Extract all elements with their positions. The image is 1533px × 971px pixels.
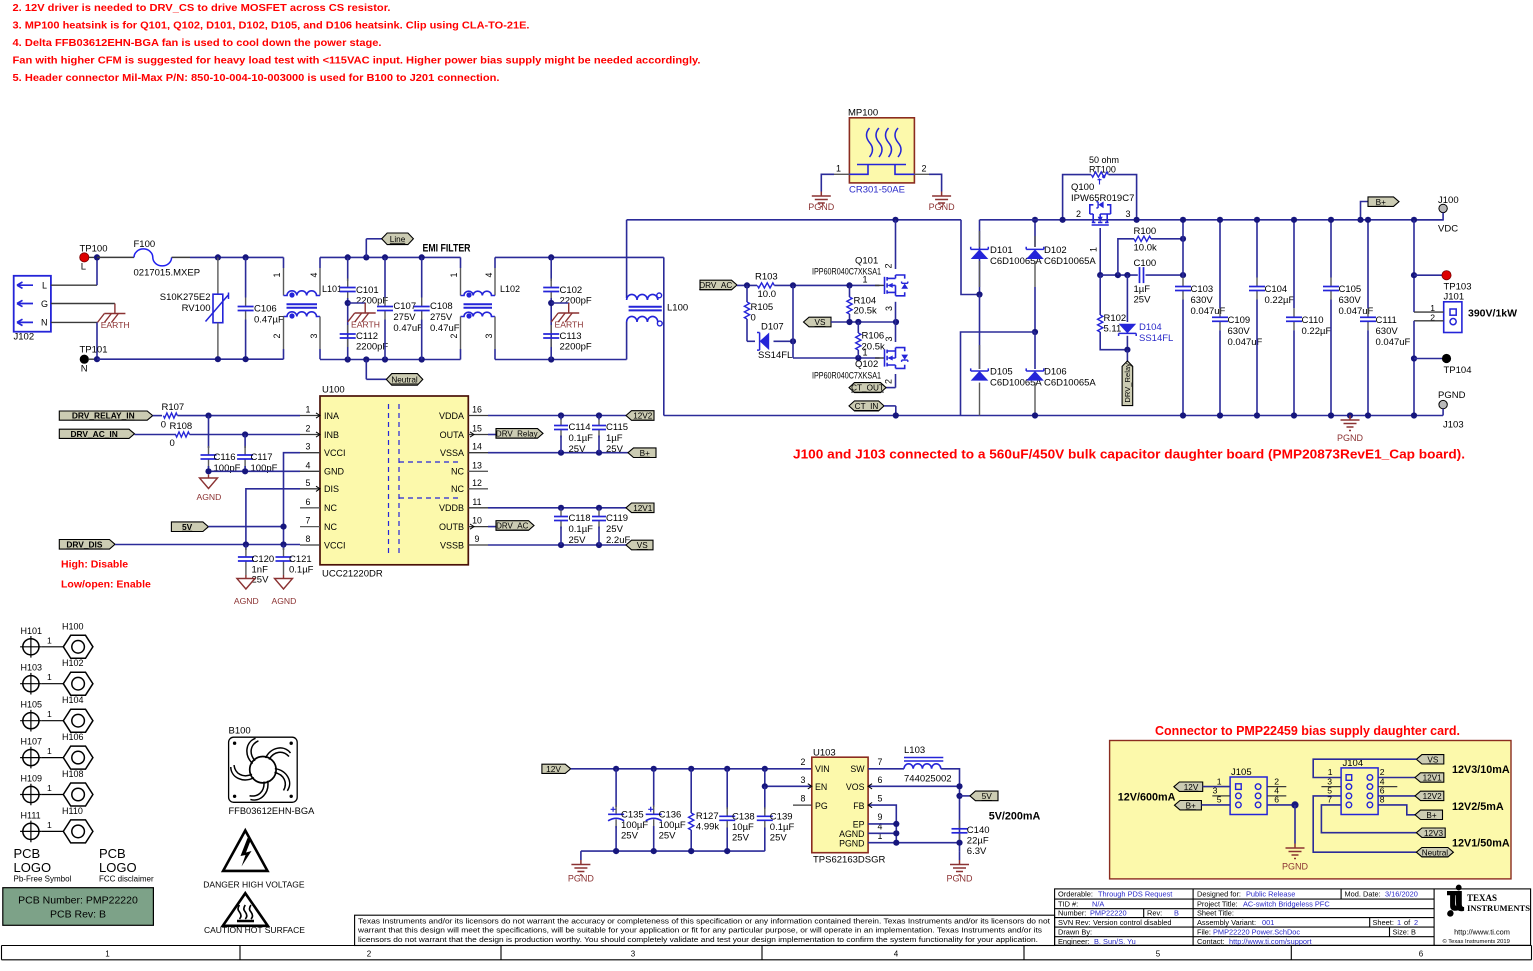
flag 12V (J105) — [1174, 782, 1203, 791]
svg-text:INB: INB — [324, 430, 339, 440]
inductor L100 — [626, 220, 628, 298]
svg-text:6.3V: 6.3V — [967, 846, 987, 857]
svg-text:2: 2 — [367, 950, 372, 959]
svg-text:C140: C140 — [967, 825, 990, 836]
power ground PGND (U103 input) — [580, 851, 582, 860]
svg-text:AGND: AGND — [234, 596, 259, 606]
power ground PGND (U103 output) — [959, 851, 961, 860]
svg-text:H105: H105 — [21, 700, 43, 710]
svg-text:25V: 25V — [659, 831, 677, 842]
svg-text:8: 8 — [1380, 795, 1385, 805]
svg-text:630V: 630V — [1191, 295, 1214, 306]
svg-text:RV100: RV100 — [182, 303, 211, 314]
bottom power rail — [664, 415, 1443, 417]
wire MP100 pin1 to PGND — [834, 173, 849, 175]
svg-text:Designed for:: Designed for: — [1197, 890, 1241, 899]
svg-text:C115: C115 — [606, 422, 628, 433]
svg-text:C113: C113 — [560, 331, 582, 342]
svg-text:5: 5 — [306, 478, 311, 488]
svg-text:© Texas Instruments 2019: © Texas Instruments 2019 — [1443, 938, 1510, 945]
svg-text:B+: B+ — [1426, 811, 1436, 820]
wire VS to J104 pin1 — [1313, 759, 1416, 777]
svg-text:FCC disclaimer: FCC disclaimer — [99, 875, 154, 884]
junction bridge mid2 — [1032, 329, 1038, 335]
svg-text:12V1: 12V1 — [633, 504, 653, 513]
svg-text:0.1µF: 0.1µF — [770, 822, 795, 833]
svg-text:15: 15 — [472, 424, 482, 434]
top rail L101 to L102 — [320, 256, 461, 258]
svg-text:NC: NC — [451, 467, 464, 477]
U100 pin 6 NC — [300, 507, 320, 509]
capacitor C104 — [1256, 220, 1258, 278]
svg-text:R102: R102 — [1104, 313, 1127, 324]
svg-text:C104: C104 — [1265, 284, 1288, 295]
svg-text:G: G — [41, 299, 48, 309]
svg-text:5V/200mA: 5V/200mA — [989, 811, 1041, 823]
svg-text:2: 2 — [1414, 918, 1418, 927]
svg-text:D101: D101 — [990, 245, 1013, 256]
U100 pin 2 INB — [300, 434, 320, 436]
svg-text:PMP22220: PMP22220 — [1090, 908, 1127, 917]
wire DRV_AC to R103 — [737, 284, 757, 286]
svg-text:L103: L103 — [904, 745, 925, 756]
svg-text:Q102: Q102 — [855, 359, 878, 370]
svg-text:SS14FL: SS14FL — [1139, 333, 1173, 344]
svg-text:R100: R100 — [1134, 226, 1157, 237]
svg-text:R103: R103 — [755, 272, 778, 283]
power ground PGND (J105) — [1286, 844, 1305, 859]
svg-text:14: 14 — [472, 442, 482, 452]
power ground PGND (rail) — [1347, 412, 1353, 418]
flag 12V1 — [626, 503, 654, 513]
svg-text:10.0k: 10.0k — [1134, 243, 1157, 254]
capacitor C120 — [245, 545, 247, 551]
power ground PGND (MP100 pin2) — [932, 192, 951, 207]
svg-text:4: 4 — [306, 460, 311, 470]
earth symbol (G pin) — [97, 304, 125, 323]
svg-text:12: 12 — [472, 478, 482, 488]
svg-text:VS: VS — [1427, 755, 1438, 764]
diode D104 — [1126, 275, 1128, 322]
flag Line — [365, 239, 367, 258]
svg-text:1: 1 — [863, 347, 868, 357]
svg-text:25V: 25V — [569, 535, 587, 546]
J104 pin3 stub — [1321, 786, 1341, 788]
svg-text:5: 5 — [1156, 950, 1161, 959]
svg-text:C107: C107 — [393, 301, 416, 312]
svg-text:3: 3 — [631, 950, 636, 959]
svg-text:Assembly Variant:: Assembly Variant: — [1197, 918, 1256, 927]
svg-text:4.99k: 4.99k — [696, 822, 719, 833]
svg-text:C139: C139 — [770, 812, 793, 823]
capacitor C115 — [598, 418, 600, 426]
svg-text:VS: VS — [815, 318, 826, 327]
svg-text:CT_IN: CT_IN — [855, 402, 879, 411]
U100 pin 3 VCCI — [300, 452, 320, 454]
diode D106 — [1034, 332, 1036, 369]
wire L100 right vertical (AC2) — [663, 257, 665, 415]
svg-text:22µF: 22µF — [967, 836, 989, 847]
svg-text:VIN: VIN — [815, 764, 830, 774]
svg-text:C135: C135 — [621, 810, 644, 821]
svg-text:J103: J103 — [1443, 420, 1464, 431]
svg-text:SS14FL: SS14FL — [758, 350, 792, 361]
svg-text:C112: C112 — [356, 331, 378, 342]
svg-text:1: 1 — [47, 783, 52, 793]
capacitor C103 — [1182, 220, 1184, 278]
svg-text:5V: 5V — [182, 522, 193, 532]
svg-text:1: 1 — [306, 405, 311, 415]
svg-text:3: 3 — [484, 334, 494, 339]
svg-text:6: 6 — [1419, 950, 1424, 959]
capacitor C140 — [959, 820, 961, 829]
capacitor C138 — [726, 769, 728, 809]
capacitor C113 — [550, 325, 552, 334]
wire J104 pin6 to 12V2 — [1378, 795, 1415, 797]
svg-text:Through PDS Request: Through PDS Request — [1098, 890, 1172, 899]
svg-text:DRV_DIS: DRV_DIS — [66, 539, 103, 549]
svg-text:PGND: PGND — [839, 838, 864, 848]
svg-text:Version control disabled: Version control disabled — [1093, 918, 1171, 927]
wire 5V to VCCI node — [208, 526, 283, 528]
flag B+ (J105) — [1175, 801, 1202, 810]
capacitor C112 — [347, 325, 349, 334]
wire VDDA to 12V2 — [488, 415, 626, 417]
svg-text:H106: H106 — [62, 732, 84, 742]
svg-text:1: 1 — [449, 273, 459, 278]
svg-text:12V2: 12V2 — [633, 412, 653, 421]
resistor R100 — [1118, 239, 1134, 275]
svg-text:2200pF: 2200pF — [560, 296, 592, 307]
svg-text:B+: B+ — [1376, 198, 1386, 207]
capacitor C119 — [598, 509, 600, 517]
svg-text:2: 2 — [801, 757, 806, 767]
svg-text:L: L — [81, 262, 86, 273]
disclaimer box — [355, 915, 1055, 945]
svg-text:PCB: PCB — [99, 846, 126, 861]
svg-text:R105: R105 — [751, 302, 774, 313]
gate RC network wire — [1100, 274, 1138, 276]
junction VDC branch — [1411, 217, 1417, 223]
svg-text:Q101: Q101 — [855, 256, 878, 267]
wire Q100 gate — [1099, 228, 1101, 275]
svg-text:0.047uF: 0.047uF — [1376, 337, 1411, 348]
svg-text:IPP60R040C7XKSA1: IPP60R040C7XKSA1 — [812, 267, 881, 278]
svg-text:N: N — [81, 364, 88, 375]
power ground PGND (MP100 pin1) — [812, 192, 831, 207]
capacitor C116 — [208, 416, 210, 448]
svg-text:C100: C100 — [1134, 258, 1157, 269]
svg-text:Mod. Date:: Mod. Date: — [1345, 890, 1381, 899]
svg-text:VSSB: VSSB — [440, 540, 464, 550]
svg-text:C102: C102 — [560, 285, 583, 296]
svg-text:C101: C101 — [356, 285, 379, 296]
svg-text:0.1µF: 0.1µF — [289, 564, 314, 575]
svg-text:PGND: PGND — [947, 874, 974, 884]
svg-text:0: 0 — [170, 438, 175, 449]
svg-text:DRV_RELAY_IN: DRV_RELAY_IN — [72, 411, 135, 421]
U100 pin 4 GND — [300, 470, 320, 472]
svg-text:9: 9 — [475, 534, 480, 544]
svg-text:16: 16 — [472, 405, 482, 415]
junction INB node — [242, 431, 248, 437]
svg-text:High: Disable: High: Disable — [61, 559, 128, 571]
svg-text:100µF: 100µF — [621, 820, 648, 831]
flag DRV_Relay (OUTA) — [488, 434, 496, 436]
svg-text:LOGO: LOGO — [14, 860, 52, 875]
svg-text:4: 4 — [894, 950, 899, 959]
svg-text:1: 1 — [863, 275, 868, 285]
svg-text:Engineer:: Engineer: — [1058, 937, 1090, 946]
svg-text:3: 3 — [801, 775, 806, 785]
svg-text:Line: Line — [390, 235, 406, 244]
flag VS (VSSB) — [626, 540, 653, 550]
svg-text:L101: L101 — [322, 284, 342, 294]
svg-text:1: 1 — [1217, 776, 1222, 786]
wire B+ to J105 pin5 — [1201, 804, 1230, 806]
svg-text:AGND: AGND — [197, 492, 222, 502]
analog ground AGND (C116) — [208, 475, 210, 479]
wire VCCI pin3 — [284, 453, 301, 545]
daughter card box — [1110, 741, 1511, 879]
wire H103-H102 — [42, 683, 64, 685]
flag CT_IN — [849, 401, 884, 411]
svg-text:D102: D102 — [1044, 245, 1067, 256]
svg-text:GND: GND — [324, 467, 345, 477]
resistor R106 — [857, 322, 859, 333]
svg-text:0.22µF: 0.22µF — [1302, 326, 1332, 337]
svg-text:VDC: VDC — [1438, 224, 1458, 235]
wire SW to 5V node — [941, 769, 960, 851]
svg-text:EARTH: EARTH — [351, 320, 380, 330]
svg-text:0.22µF: 0.22µF — [1265, 295, 1295, 306]
testpoint TP104 — [1411, 355, 1417, 361]
svg-text:H109: H109 — [21, 774, 43, 784]
svg-text:630V: 630V — [1376, 326, 1399, 337]
svg-text:5. Header connector Mil-Max P/: 5. Header connector Mil-Max P/N: 850-10-… — [13, 72, 500, 84]
svg-text:4: 4 — [309, 273, 319, 278]
wire DIS pin5 — [246, 489, 300, 545]
junction gate-R102 — [1097, 272, 1103, 278]
svg-text:Q100: Q100 — [1071, 182, 1094, 193]
svg-text:Sheet Title:: Sheet Title: — [1197, 908, 1234, 917]
svg-text:3: 3 — [884, 336, 894, 341]
svg-text:NC: NC — [324, 522, 337, 532]
U100 pin 7 NC — [300, 526, 320, 528]
svg-text:1: 1 — [1089, 247, 1099, 252]
wire L100 bottom-left to rail — [626, 322, 628, 360]
svg-text:TID #:: TID #: — [1058, 899, 1078, 908]
wire H107-H106 — [42, 757, 64, 759]
U100 pin 9 VSSB — [468, 544, 488, 546]
svg-text:10: 10 — [472, 516, 482, 526]
svg-text:VSSA: VSSA — [440, 448, 464, 458]
junction INA node — [205, 413, 211, 419]
svg-text:3. MP100 heatsink is for Q101,: 3. MP100 heatsink is for Q101, Q102, D10… — [13, 20, 530, 32]
svg-text:INSTRUMENTS: INSTRUMENTS — [1467, 903, 1530, 913]
svg-text:5V: 5V — [982, 791, 993, 801]
U100 pin 1 INA — [300, 415, 320, 417]
svg-text:VDDA: VDDA — [439, 411, 464, 421]
svg-text:100pF: 100pF — [251, 463, 278, 474]
svg-text:http://www.ti.com: http://www.ti.com — [1454, 928, 1510, 937]
svg-text:Neutral: Neutral — [1422, 848, 1449, 857]
svg-text:1: 1 — [47, 746, 52, 756]
svg-text:1µF: 1µF — [606, 433, 623, 444]
capacitor C106 — [245, 257, 247, 297]
svg-text:2: 2 — [884, 379, 894, 384]
svg-text:3: 3 — [884, 306, 894, 311]
svg-text:0.47uF: 0.47uF — [393, 323, 423, 334]
svg-text:TEXAS: TEXAS — [1467, 893, 1497, 903]
wire J104 pin5 to Neutral — [1313, 796, 1416, 852]
svg-text:C111: C111 — [1376, 315, 1397, 326]
junction D106 bottom — [1032, 412, 1038, 418]
svg-text:Texas Instruments and/or its l: Texas Instruments and/or its licensors d… — [358, 918, 1050, 925]
svg-text:B100: B100 — [229, 726, 251, 737]
svg-text:NC: NC — [451, 484, 464, 494]
svg-text:VS: VS — [637, 541, 648, 550]
flag CT_OUT — [886, 387, 896, 389]
junction C102 — [548, 254, 554, 260]
junction CT_IN — [893, 412, 899, 418]
svg-text:L102: L102 — [500, 284, 520, 294]
capacitor C108 — [421, 257, 423, 297]
flag DRV_DIS — [59, 540, 115, 550]
capacitor C101 — [347, 257, 349, 281]
wire 12V to J105 pin1 — [1203, 786, 1230, 788]
svg-text:1: 1 — [1397, 918, 1401, 927]
svg-text:EMI FILTER: EMI FILTER — [423, 243, 471, 255]
AC line1 wire L100 to bridge — [627, 219, 961, 221]
svg-text:J101: J101 — [1444, 292, 1465, 303]
svg-text:Size: B: Size: B — [1393, 928, 1416, 937]
svg-text:C106: C106 — [254, 304, 277, 315]
flag Neutral — [365, 360, 367, 380]
svg-text:10µF: 10µF — [732, 822, 754, 833]
svg-text:LOGO: LOGO — [99, 860, 137, 875]
diode D105 — [979, 295, 981, 370]
svg-text:Public Release: Public Release — [1246, 890, 1295, 899]
svg-text:Number:: Number: — [1058, 908, 1086, 917]
svg-text:OUTB: OUTB — [439, 522, 464, 532]
svg-text:20.5k: 20.5k — [854, 306, 877, 317]
resistor R108 — [135, 434, 177, 436]
svg-text:PG: PG — [815, 801, 828, 811]
wire H105-H104 — [42, 720, 64, 722]
capacitor C117 — [244, 435, 246, 449]
svg-text:VOS: VOS — [846, 782, 865, 792]
svg-text:2: 2 — [449, 334, 459, 339]
junction TP100 — [89, 256, 97, 258]
svg-text:TPS62163DSGR: TPS62163DSGR — [813, 854, 885, 865]
capacitor C111 — [1367, 220, 1369, 308]
svg-text:NC: NC — [324, 503, 337, 513]
svg-text:FB: FB — [853, 801, 864, 811]
flag B+ (J104) — [1415, 810, 1443, 819]
svg-text:Fan with higher CFM is suggest: Fan with higher CFM is suggested for hea… — [13, 55, 701, 67]
svg-text:PGND: PGND — [1438, 390, 1466, 401]
svg-text:VCCI: VCCI — [324, 540, 346, 550]
flag 12V (U103) — [542, 764, 571, 773]
svg-text:275V: 275V — [393, 312, 416, 323]
svg-text:25V: 25V — [606, 524, 624, 535]
flag 5V (U100) — [171, 522, 208, 532]
svg-text:630V: 630V — [1339, 295, 1362, 306]
svg-text:12V1/50mA: 12V1/50mA — [1452, 838, 1510, 850]
svg-text:R127: R127 — [696, 811, 719, 822]
svg-text:3: 3 — [1126, 209, 1131, 219]
bottom rail L101 to L102 — [320, 359, 461, 361]
svg-text:PGND: PGND — [1337, 433, 1364, 443]
capacitor C135 (polarized) — [615, 769, 617, 807]
junction C106 top — [243, 254, 249, 260]
svg-text:13: 13 — [472, 460, 482, 470]
svg-text:4. Delta FFB03612EHN-BGA fan i: 4. Delta FFB03612EHN-BGA fan is used to … — [13, 37, 382, 49]
wire H101-H100 — [42, 646, 64, 648]
resistor R105 — [746, 285, 748, 302]
bottom rail TP101 to L101 — [97, 358, 284, 360]
svg-text:2: 2 — [884, 263, 894, 268]
svg-text:7: 7 — [1327, 795, 1332, 805]
svg-text:25V: 25V — [770, 833, 788, 844]
flag B+ (top) — [1361, 202, 1369, 220]
svg-text:H101: H101 — [21, 626, 43, 636]
svg-text:12V: 12V — [546, 764, 561, 774]
wire J104 pin2 to 12V1 — [1378, 777, 1415, 779]
svg-text:7: 7 — [878, 757, 883, 767]
svg-text:12V2/5mA: 12V2/5mA — [1452, 801, 1504, 813]
junction C102-EARTH — [548, 300, 554, 306]
svg-text:1: 1 — [47, 635, 52, 645]
svg-text:1: 1 — [47, 709, 52, 719]
wire MP100 pin2 to PGND — [914, 173, 929, 175]
svg-text:File:: File: — [1197, 928, 1211, 937]
capacitor C110 — [1293, 220, 1295, 308]
svg-text:licensors do not warrant that: licensors do not warrant that the design… — [358, 937, 1038, 944]
svg-text:D107: D107 — [761, 322, 784, 333]
svg-text:6: 6 — [306, 497, 311, 507]
capacitor C105 — [1330, 220, 1332, 278]
junction D102 top — [1032, 217, 1038, 223]
svg-text:1: 1 — [1430, 303, 1435, 313]
resistor R107 — [153, 415, 162, 417]
junction PGND branch bottom — [1411, 412, 1417, 418]
svg-text:J102: J102 — [14, 332, 35, 343]
svg-text:2200pF: 2200pF — [560, 342, 592, 353]
caution hot surface symbol — [223, 893, 268, 926]
GND wire to pin4 — [209, 470, 301, 472]
wire J102.N to TP101 node — [51, 321, 97, 323]
flag DRV_AC (OUTB) — [488, 526, 496, 528]
svg-text:Low/open: Enable: Low/open: Enable — [61, 579, 151, 591]
earth symbol (C101) — [348, 302, 366, 304]
svg-text:2: 2 — [922, 164, 927, 174]
svg-text:3: 3 — [309, 334, 319, 339]
U100 pin 16 VDDA — [468, 415, 488, 417]
svg-text:2: 2 — [272, 334, 282, 339]
VDC branch wire — [1413, 220, 1415, 312]
svg-text:CT_OUT: CT_OUT — [851, 384, 884, 393]
svg-text:390V/1kW: 390V/1kW — [1468, 308, 1517, 320]
J105 pin4 stub — [1267, 795, 1286, 797]
svg-text:2: 2 — [306, 424, 311, 434]
wire H109-H108 — [42, 794, 64, 796]
svg-text:DRV_Relay: DRV_Relay — [1123, 363, 1132, 403]
wire VSSB to VS — [488, 544, 626, 546]
svg-text:warrant that this design will: warrant that this design will meet the s… — [357, 928, 1043, 935]
top B+ rail — [980, 219, 1444, 221]
